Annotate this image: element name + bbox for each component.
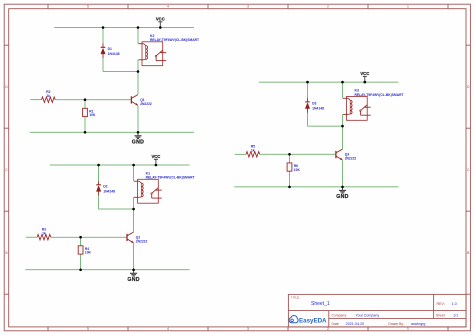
- frame zone numbers top/bottom: [87, 5, 409, 332]
- relay K3 coil: [343, 98, 352, 114]
- junction divider ground node: [79, 269, 82, 272]
- junction collector node: [137, 70, 140, 73]
- label K1 RELAY: [146, 172, 195, 180]
- wire: VCC top rail: [50, 164, 190, 166]
- svg-text:5: 5: [87, 327, 89, 331]
- resistor R3 1k series base: [37, 235, 51, 240]
- relay K2 body: [142, 42, 163, 66]
- label K3 RELAY: [355, 89, 404, 97]
- svg-text:D2: D2: [103, 185, 107, 189]
- wire: ground bottom rail: [25, 269, 189, 271]
- relay K1 coil: [134, 181, 143, 197]
- junction emitter ground node: [137, 131, 140, 134]
- power flag VCC for Q2 block: [151, 154, 160, 165]
- transistor Q2 2N2222: [127, 232, 134, 243]
- svg-text:Sheet_1: Sheet_1: [311, 301, 330, 307]
- junction emitter ground node: [132, 269, 135, 272]
- junction relay branch node: [137, 26, 140, 29]
- svg-text:2: 2: [327, 327, 329, 331]
- transistor Q1 2N2222: [131, 95, 138, 106]
- svg-text:10K: 10K: [85, 251, 92, 255]
- ground symbol GND: [127, 270, 139, 283]
- label Q3 2N2222: [345, 153, 357, 161]
- svg-text:aswingrg: aswingrg: [411, 322, 425, 326]
- svg-text:GND: GND: [127, 277, 139, 283]
- svg-text:Your Company: Your Company: [356, 314, 380, 318]
- relay K3 switch contacts: [360, 105, 371, 115]
- wire: emitter to ground rail: [133, 243, 135, 270]
- svg-text:4: 4: [167, 5, 169, 9]
- ground symbol GND: [336, 187, 348, 200]
- label K2 RELAY: [150, 34, 199, 42]
- svg-text:Company:: Company:: [332, 314, 348, 318]
- svg-text:VCC: VCC: [156, 16, 165, 21]
- label Q1 2N2222: [140, 98, 152, 106]
- svg-text:1: 1: [407, 5, 409, 9]
- label D3 1N4148: [312, 102, 324, 111]
- svg-text:Date:: Date:: [332, 322, 340, 326]
- relay K2 coil: [138, 44, 147, 60]
- relay K2 switch contacts: [155, 50, 166, 60]
- svg-text:D1: D1: [108, 47, 112, 51]
- relay K1 switch contacts: [151, 188, 162, 198]
- frame zone letters left/right: [5, 85, 470, 255]
- svg-text:RELAY-T9F4WV(CL-BK)SMART: RELAY-T9F4WV(CL-BK)SMART: [150, 38, 199, 42]
- svg-text:1N4148: 1N4148: [108, 52, 120, 56]
- svg-text:GND: GND: [336, 194, 348, 200]
- relay K3 body: [347, 96, 368, 120]
- junction collector node: [132, 208, 135, 211]
- svg-text:GND: GND: [132, 139, 144, 145]
- label D2 1N4148: [103, 185, 115, 194]
- junction VCC node: [155, 164, 158, 167]
- label D1 1N4148: [108, 47, 120, 56]
- svg-text:1k: 1k: [42, 231, 46, 235]
- svg-text:D3: D3: [312, 102, 316, 106]
- power flag VCC for Q3 block: [360, 71, 369, 82]
- junction base divider node: [288, 153, 291, 156]
- power flag VCC for Q1 block: [156, 16, 165, 27]
- wire: ground bottom rail: [234, 186, 398, 188]
- svg-text:Drawn By:: Drawn By:: [388, 322, 404, 326]
- svg-text:1/1: 1/1: [453, 314, 458, 318]
- svg-text:2N2222: 2N2222: [136, 239, 148, 243]
- wire: diode bottom to collector node: [103, 71, 138, 73]
- junction relay branch node: [341, 81, 344, 84]
- junction diode top node: [97, 164, 100, 167]
- wire: relay coil branch down from rail: [342, 82, 344, 98]
- resistor R4 10K pulldown: [78, 237, 83, 270]
- wire: relay coil branch down from rail: [133, 165, 135, 181]
- title block texts: [291, 296, 458, 326]
- wire: ground bottom rail: [30, 131, 194, 133]
- resistor R6 10K pulldown: [287, 154, 292, 187]
- wire: coil bottom to transistor collector: [137, 60, 139, 95]
- junction VCC node: [364, 81, 367, 84]
- svg-text:1.0: 1.0: [452, 302, 457, 306]
- label R3 1k: [42, 228, 46, 236]
- svg-text:3: 3: [247, 5, 249, 9]
- svg-text:VCC: VCC: [360, 71, 369, 76]
- wire: VCC top rail: [259, 81, 399, 83]
- svg-text:2021-04-20: 2021-04-20: [346, 322, 364, 326]
- junction divider ground node: [288, 186, 291, 189]
- svg-text:RELAY-T9F4WV(CL-BK)SMART: RELAY-T9F4WV(CL-BK)SMART: [146, 176, 195, 180]
- resistor R5 1k series base: [246, 152, 260, 157]
- junction VCC node: [159, 26, 162, 29]
- svg-text:1: 1: [407, 327, 409, 331]
- diode D1 1N4148 flyback: [101, 28, 106, 72]
- label R4 10K: [85, 247, 92, 255]
- wire: relay coil branch down from rail: [137, 28, 139, 44]
- relay K1 body: [138, 179, 159, 203]
- label R1 10K: [89, 109, 96, 117]
- wire: VCC top rail: [54, 27, 194, 29]
- EasyEDA logo: [289, 316, 327, 325]
- svg-text:EasyEDA: EasyEDA: [299, 317, 327, 324]
- junction relay branch node: [132, 164, 135, 167]
- svg-text:RELAY-T9F4WV(CL-BK)SMART: RELAY-T9F4WV(CL-BK)SMART: [355, 93, 404, 97]
- svg-text:10K: 10K: [294, 168, 301, 172]
- label R2 1k: [46, 90, 50, 98]
- svg-text:1N4148: 1N4148: [103, 189, 115, 193]
- svg-text:3: 3: [247, 327, 249, 331]
- svg-text:4: 4: [167, 327, 169, 331]
- wire: emitter to ground rail: [137, 106, 139, 133]
- svg-text:Sheet:: Sheet:: [436, 314, 446, 318]
- resistor R1 10K pulldown: [83, 100, 88, 133]
- svg-text:TITLE:: TITLE:: [291, 296, 300, 300]
- wire: base input rail: [26, 236, 37, 238]
- svg-text:VCC: VCC: [151, 154, 160, 159]
- junction base divider node: [79, 236, 82, 239]
- junction emitter ground node: [341, 186, 344, 189]
- junction base divider node: [84, 98, 87, 101]
- svg-text:2N2222: 2N2222: [345, 157, 357, 161]
- transistor Q3 2N2222: [336, 149, 343, 160]
- wire: emitter to ground rail: [342, 160, 344, 187]
- ground symbol GND: [132, 132, 144, 145]
- junction divider ground node: [84, 131, 87, 134]
- wire: diode bottom to collector node: [308, 125, 343, 127]
- junction diode top node: [102, 26, 105, 29]
- svg-text:2: 2: [327, 5, 329, 9]
- label Q2 2N2222: [136, 236, 148, 244]
- frame zone ticks left/right: [4, 45, 470, 294]
- junction diode top node: [306, 81, 309, 84]
- diode D2 1N4148 flyback: [96, 165, 101, 209]
- svg-text:2N2222: 2N2222: [140, 102, 152, 106]
- svg-text:1N4148: 1N4148: [312, 106, 324, 110]
- resistor R2 1k series base: [42, 97, 56, 102]
- wire: base input rail: [30, 99, 41, 101]
- label R6 10K: [294, 164, 301, 172]
- wire: diode bottom to collector node: [99, 208, 134, 210]
- label R5 1k: [251, 145, 255, 153]
- junction collector node: [341, 125, 344, 128]
- svg-text:10K: 10K: [89, 113, 96, 117]
- diode D3 1N4148 flyback: [305, 82, 310, 126]
- svg-text:REV:: REV:: [437, 302, 445, 306]
- wire: coil bottom to transistor collector: [133, 197, 135, 232]
- svg-text:1k: 1k: [251, 148, 255, 152]
- wire: base input rail: [235, 153, 246, 155]
- title block frame: [288, 294, 466, 327]
- svg-text:1k: 1k: [46, 94, 50, 98]
- wire: coil bottom to transistor collector: [342, 114, 344, 149]
- svg-text:5: 5: [87, 5, 89, 9]
